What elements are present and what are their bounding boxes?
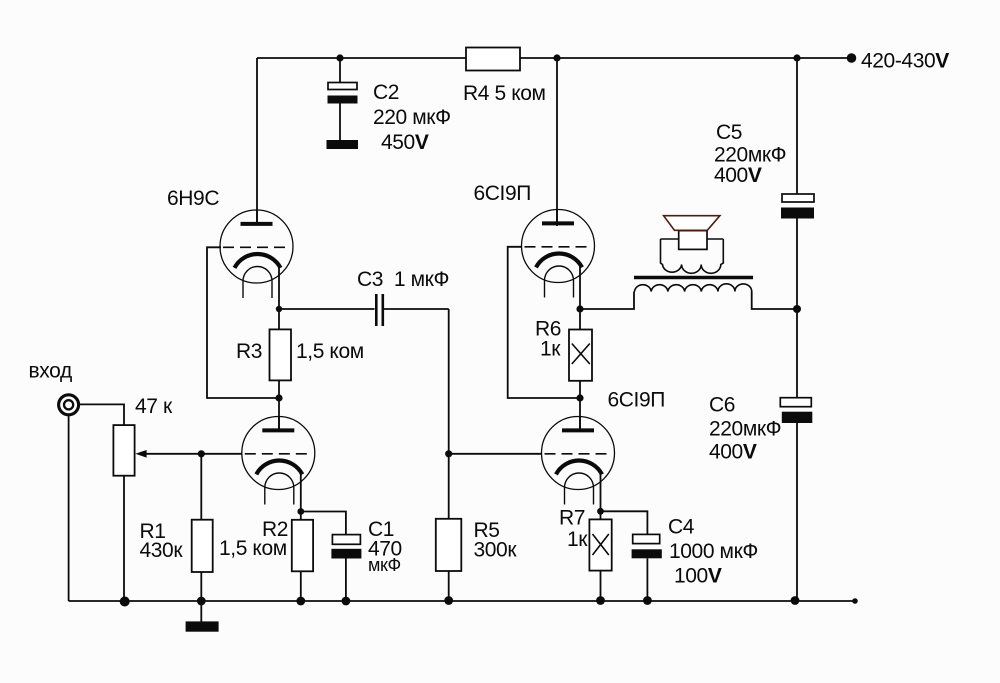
wire anode riser V1 xyxy=(256,58,258,224)
wire V3 cathode lead xyxy=(579,267,581,310)
svg-text:C4: C4 xyxy=(668,516,695,539)
tube V4 6С19П lower xyxy=(542,417,615,505)
wire C3 to R5 riser xyxy=(448,309,450,519)
capacitor C4 plates xyxy=(632,534,662,558)
wire V1 cathode lead xyxy=(278,267,280,309)
capacitor C2 plates xyxy=(328,83,358,104)
junction R5/ground rail xyxy=(444,596,453,605)
terminal 420-430V xyxy=(847,53,857,63)
wire C3 left xyxy=(279,308,375,310)
svg-text:мкФ: мкФ xyxy=(368,555,401,575)
wire cathode node to C1 xyxy=(301,512,346,535)
svg-text:C5: C5 xyxy=(716,121,742,144)
junction R1/ground rail xyxy=(197,597,206,606)
resistor R2 xyxy=(292,520,313,572)
wire C3 right xyxy=(384,308,449,310)
wire C6 bottom to ground rail xyxy=(796,423,798,601)
wire input jack to pot xyxy=(79,404,124,425)
tube V2 (lower half 6Н9С) xyxy=(242,417,315,505)
wire node to R1 xyxy=(200,454,202,520)
wire C2 top lead xyxy=(339,58,341,83)
junction R6 bottom node xyxy=(576,394,583,401)
tube V1 6Н9С xyxy=(220,210,293,298)
transformer secondary winding xyxy=(661,239,724,273)
wire R3 bottom lead xyxy=(278,380,280,398)
svg-text:1,5 ком: 1,5 ком xyxy=(296,340,364,363)
wire R3 top lead xyxy=(278,309,280,329)
svg-text:220 мкФ: 220 мкФ xyxy=(373,106,451,129)
junction C1/ground rail xyxy=(342,597,351,606)
wire transformer primary right lead xyxy=(752,292,797,310)
junction V2 cathode node xyxy=(297,508,304,515)
ground chassis bar below C2 xyxy=(327,140,359,149)
svg-text:C2: C2 xyxy=(373,81,399,104)
junction C4/ground rail xyxy=(643,596,652,605)
svg-text:400V: 400V xyxy=(709,441,757,464)
junction R3 bottom node xyxy=(275,394,282,401)
speaker driver box xyxy=(679,231,707,250)
wire V2 cathode lead xyxy=(300,470,302,512)
resistor R4 xyxy=(466,48,520,71)
wire cathode node to C4 xyxy=(601,511,648,534)
svg-text:100V: 100V xyxy=(674,565,722,588)
junction C5/top rail xyxy=(793,54,800,61)
junction C2/top rail xyxy=(336,54,343,61)
wire node to V4 anode xyxy=(579,398,581,430)
svg-text:400V: 400V xyxy=(714,164,762,187)
wire ground stem xyxy=(200,601,202,622)
svg-text:C6: C6 xyxy=(709,394,735,417)
terminal ground rail end xyxy=(852,598,858,604)
wire jack ground drop xyxy=(68,414,70,601)
svg-text:6Н9С: 6Н9С xyxy=(167,187,219,210)
wire R7 bottom lead xyxy=(600,571,602,601)
junction R7/ground rail xyxy=(596,596,605,605)
capacitor C6 plates xyxy=(780,398,812,423)
wire C2 bottom lead xyxy=(339,104,341,142)
junction R1/wiper node xyxy=(198,450,205,457)
wire C5 bottom to node xyxy=(796,219,798,398)
resistor R7 with X xyxy=(589,519,611,570)
svg-text:300к: 300к xyxy=(474,539,518,562)
svg-text:1000 мкФ: 1000 мкФ xyxy=(669,540,758,563)
capacitor C1 plates xyxy=(331,535,361,559)
junction V4 grid node xyxy=(445,450,452,457)
wire C1 bottom lead xyxy=(345,559,347,602)
wire R2 top lead xyxy=(300,512,302,520)
svg-text:420-430V: 420-430V xyxy=(861,50,949,73)
svg-text:R7: R7 xyxy=(559,507,585,530)
svg-text:1к: 1к xyxy=(567,528,588,551)
wire V3 grid feedback xyxy=(508,247,577,398)
wire anode riser V3 xyxy=(556,58,558,226)
resistor R5 xyxy=(436,519,462,571)
wire node to V2 anode xyxy=(278,398,280,431)
junction V3 cathode node xyxy=(576,305,583,312)
wire R7 top lead xyxy=(600,511,602,519)
junction R2/ground rail xyxy=(296,597,305,606)
svg-text:6СI9П: 6СI9П xyxy=(608,389,665,412)
svg-text:430к: 430к xyxy=(140,539,184,562)
potentiometer wiper arrow xyxy=(135,450,146,458)
speaker box top edge xyxy=(679,230,707,232)
transformer core xyxy=(634,276,753,279)
resistor R3 xyxy=(270,329,292,380)
tube V3 6С19П upper xyxy=(522,210,595,298)
input jack xyxy=(59,395,79,415)
resistor R1 xyxy=(192,520,213,572)
junction pot/ground rail xyxy=(120,597,130,607)
svg-text:C3 1 мкФ: C3 1 мкФ xyxy=(357,268,449,291)
wire R1 bottom lead xyxy=(200,572,202,601)
junction transformer/C5 node xyxy=(793,305,801,313)
svg-text:47 к: 47 к xyxy=(135,395,173,418)
wire C4 bottom lead xyxy=(646,558,648,601)
junction V3 anode/top rail xyxy=(553,54,560,61)
capacitor C5 plates xyxy=(781,194,814,219)
resistor R6 with X xyxy=(569,330,592,381)
wire R2 bottom lead xyxy=(300,571,302,601)
potentiometer 47k body xyxy=(113,425,134,476)
svg-text:220мкФ: 220мкФ xyxy=(709,418,781,441)
wire top B+ rail xyxy=(257,57,851,59)
wire V4 cathode lead xyxy=(600,470,602,511)
wire pot wiper to V2 grid xyxy=(146,453,242,455)
wire cathode node to transformer xyxy=(580,292,634,310)
wire R5 bottom lead xyxy=(448,571,450,601)
transformer primary winding xyxy=(635,284,752,292)
wire R6 top lead xyxy=(579,309,581,330)
wire C5/C6 right branch xyxy=(796,58,798,194)
junction C6/ground rail xyxy=(791,596,800,605)
speaker cone xyxy=(664,216,720,231)
svg-text:1к: 1к xyxy=(540,338,561,361)
wire grid V4 xyxy=(449,453,542,455)
wire pot bottom lead xyxy=(123,476,125,601)
svg-text:1,5 ком: 1,5 ком xyxy=(219,537,287,560)
wire R6 bottom lead xyxy=(579,381,581,398)
svg-text:450V: 450V xyxy=(381,131,429,154)
svg-text:6СI9П: 6СI9П xyxy=(474,182,531,205)
capacitor C3 plates xyxy=(376,294,383,326)
ground symbol (chassis bar) xyxy=(186,621,219,631)
wire bottom ground rail xyxy=(69,600,855,602)
junction V1 cathode node xyxy=(276,306,282,312)
svg-text:вход: вход xyxy=(29,360,72,383)
svg-text:R3: R3 xyxy=(236,340,262,363)
wire V1 grid feedback xyxy=(207,247,276,398)
junction V4 cathode node xyxy=(597,508,604,515)
svg-text:R4 5 ком: R4 5 ком xyxy=(463,82,546,105)
